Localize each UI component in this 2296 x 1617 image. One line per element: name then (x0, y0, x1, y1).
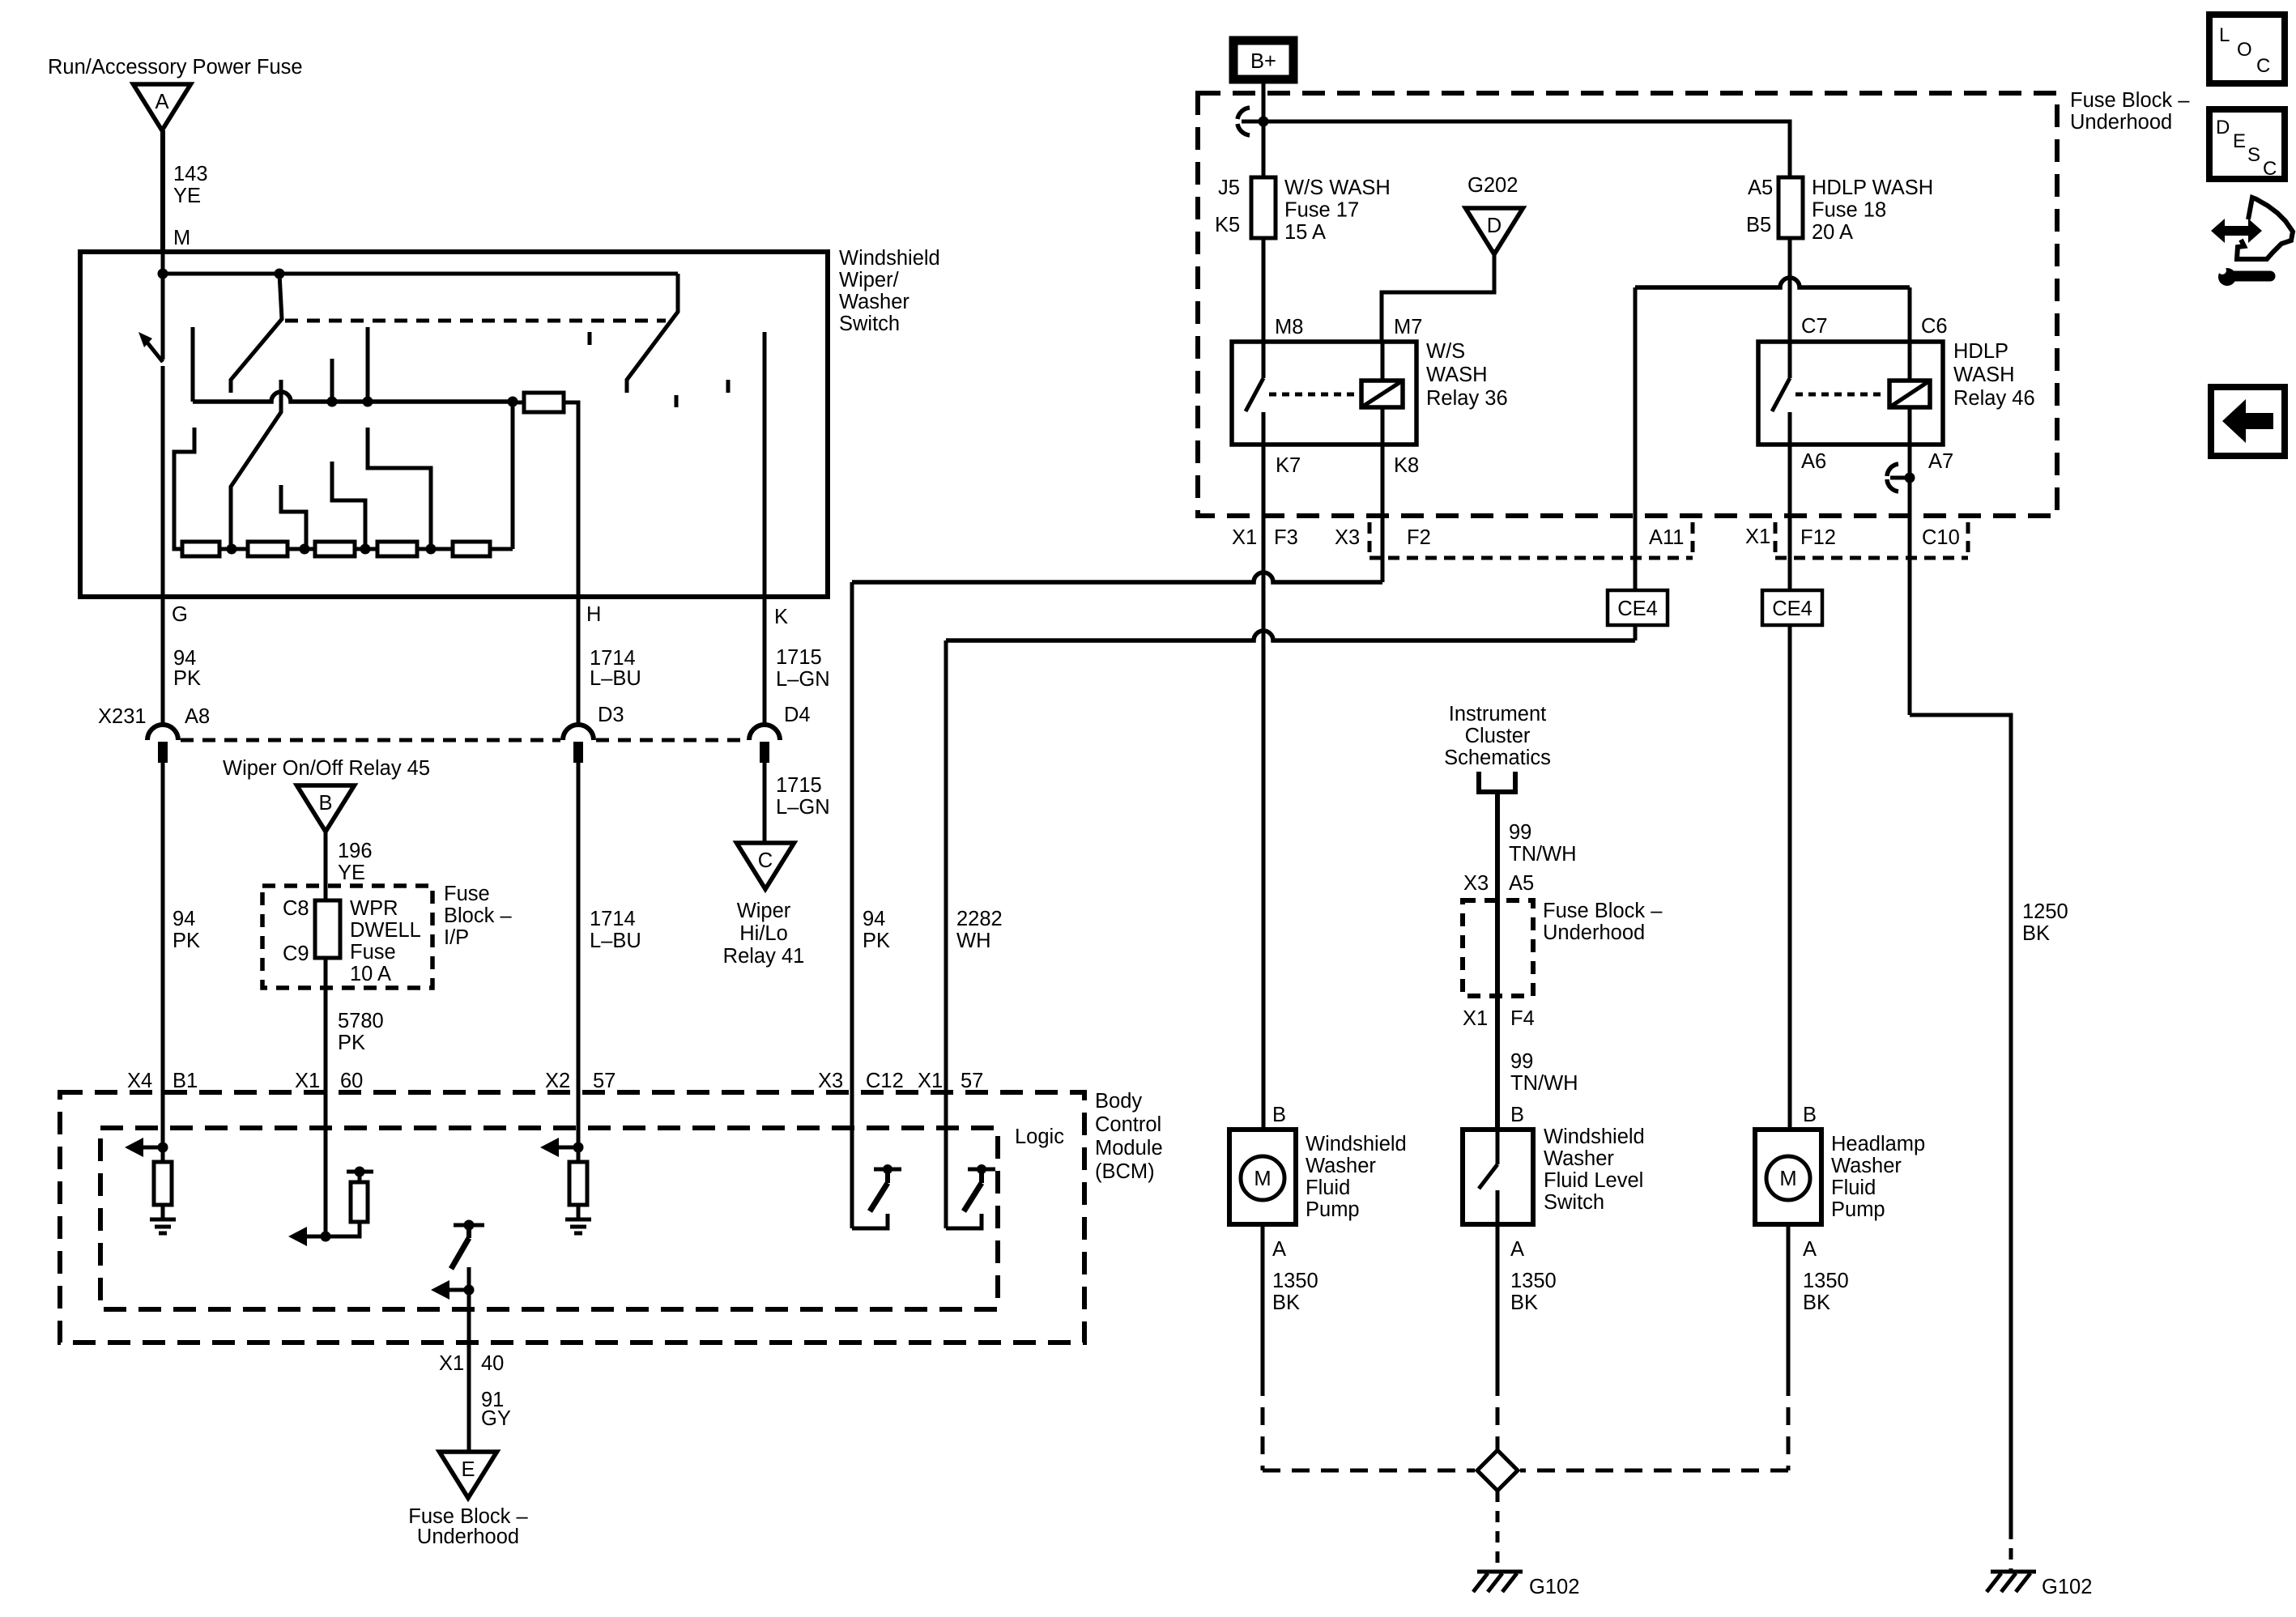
wire 60 to pullup resistor (326, 1222, 360, 1236)
svg-text:M: M (173, 227, 190, 249)
svg-text:TN/WH: TN/WH (1510, 1072, 1578, 1095)
mechanical link dashed (wiper lever) (285, 319, 666, 323)
svg-text:Washer: Washer (1544, 1147, 1614, 1170)
wire switch pin G (161, 366, 165, 723)
logic dashed box (100, 1128, 998, 1309)
in-line connector X231 A8 (147, 725, 178, 740)
junction ladder dot 2 (300, 544, 310, 555)
svg-text:Relay 46: Relay 46 (1953, 387, 2035, 410)
svg-text:A8: A8 (185, 705, 210, 728)
svg-text:E: E (461, 1458, 475, 1481)
svg-text:DWELL: DWELL (350, 919, 421, 942)
svg-text:Washer: Washer (1831, 1155, 1902, 1177)
fuse WPR DWELL 10A (315, 900, 340, 958)
fuse block underhood dashed box (1198, 93, 2057, 516)
svg-text:BK: BK (1803, 1291, 1830, 1314)
wire rail to delay resistor (513, 401, 524, 405)
svg-text:Fuse: Fuse (444, 883, 490, 905)
svg-text:94: 94 (863, 908, 885, 930)
svg-text:M7: M7 (1394, 316, 1422, 338)
svg-text:57: 57 (961, 1070, 983, 1092)
junction supply 60 (355, 1167, 365, 1177)
svg-text:A: A (1272, 1238, 1286, 1261)
ground G102 (right) (1991, 1570, 2036, 1574)
splice hook at B+ feed (1237, 108, 1250, 135)
wire pullup to supply (358, 1172, 362, 1182)
svg-text:Control: Control (1095, 1113, 1161, 1136)
BCM output 40: switch (454, 1223, 484, 1228)
svg-text:X2: X2 (545, 1070, 570, 1092)
battery B+ box (1233, 40, 1293, 79)
resistor ladder stub B (332, 462, 365, 549)
wire relay46 A7 down (1908, 445, 1912, 715)
wire fuse 17 to relay 36 M8 (1262, 238, 1266, 342)
svg-text:F12: F12 (1800, 526, 1836, 549)
svg-text:PK: PK (338, 1032, 365, 1054)
wire 1714 L-BU D3 to BCM 57 (577, 762, 581, 1095)
svg-text:Schematics: Schematics (1444, 747, 1551, 769)
wire ladder right riser (511, 402, 515, 549)
svg-text:Windshield: Windshield (839, 247, 940, 270)
svg-text:Washer: Washer (1306, 1155, 1376, 1177)
icon DESC box (2209, 109, 2285, 179)
svg-text:B1: B1 (173, 1070, 198, 1092)
connector boundary X3 dashed bar (1368, 522, 1372, 558)
svg-text:M: M (1254, 1168, 1271, 1190)
connector triangle B (Wiper On/Off Relay 45) (297, 785, 355, 832)
svg-text:Underhood: Underhood (1543, 921, 1645, 944)
svg-text:K5: K5 (1215, 214, 1240, 236)
svg-text:W/S WASH: W/S WASH (1284, 177, 1391, 199)
svg-text:Pump: Pump (1306, 1198, 1360, 1221)
junction 40 (464, 1285, 475, 1296)
relay 36 coil (1361, 381, 1403, 407)
svg-text:1715: 1715 (776, 646, 822, 669)
svg-text:C: C (2263, 158, 2277, 180)
svg-text:D: D (1487, 215, 1502, 237)
common rail of delay contacts (with hop) (193, 392, 513, 402)
level switch contact (1496, 1130, 1500, 1164)
icon wrench (2218, 268, 2236, 286)
junction rail dot 2 (363, 397, 373, 407)
fuse block underhood small dashed box (1463, 900, 1533, 996)
svg-text:L: L (2219, 24, 2230, 46)
icon hood open / double arrow (2211, 219, 2262, 243)
icon LOC box (2209, 15, 2285, 83)
svg-text:X1: X1 (439, 1352, 464, 1375)
wire 1715 L-GN D4 to relay41 triangle (763, 762, 767, 845)
BCM input 60: wire (324, 1095, 328, 1236)
svg-text:X4: X4 (127, 1070, 152, 1092)
svg-text:BK: BK (1510, 1291, 1538, 1314)
wire top rail of switch (163, 272, 678, 276)
svg-text:X1: X1 (295, 1070, 320, 1092)
body control module BCM dashed box (60, 1092, 1084, 1343)
BCM output 40: wire (467, 1267, 471, 1453)
relay 36 actuation dashed link (1269, 393, 1359, 397)
wire G202 to relay 36 M7 (1382, 249, 1494, 342)
wire K8 horizontal with hop (852, 572, 1382, 582)
wire relay36 K8 to BCM C12 (1381, 445, 1385, 582)
svg-text:K: K (774, 606, 788, 628)
svg-text:196: 196 (338, 840, 373, 862)
svg-text:C9: C9 (283, 943, 309, 965)
svg-text:I/P: I/P (444, 926, 469, 949)
svg-text:Fluid: Fluid (1831, 1177, 1876, 1199)
svg-text:Switch: Switch (839, 313, 900, 335)
wire delay resistor to pin H (564, 402, 578, 597)
svg-text:1350: 1350 (1510, 1270, 1557, 1292)
connector boundary X1 dashed bar (1774, 522, 1778, 558)
svg-text:HDLP WASH: HDLP WASH (1812, 177, 1933, 199)
svg-text:Relay 36: Relay 36 (1426, 387, 1508, 410)
wire resistor to ground (577, 1205, 581, 1219)
svg-text:Fuse Block –: Fuse Block – (1543, 900, 1663, 922)
svg-text:A: A (155, 91, 168, 113)
windshield washer fluid pump box (1229, 1130, 1296, 1224)
off-page bracket (instrument cluster) (1479, 772, 1515, 792)
resistor R-B of delay ladder (248, 542, 288, 556)
svg-text:57: 57 (593, 1070, 616, 1092)
fuse block I/P dashed box (262, 886, 432, 988)
svg-text:J5: J5 (1218, 177, 1240, 199)
svg-text:1350: 1350 (1272, 1270, 1318, 1292)
svg-text:B: B (1803, 1104, 1817, 1126)
connector dashed line D3-D4 (596, 738, 747, 743)
svg-text:Fuse Block –: Fuse Block – (408, 1505, 528, 1528)
svg-text:Wiper/: Wiper/ (839, 269, 900, 291)
svg-text:BK: BK (2022, 922, 2050, 945)
svg-text:Relay 41: Relay 41 (723, 945, 805, 968)
svg-text:B5: B5 (1746, 214, 1771, 236)
relay 36 W/S WASH box (1232, 342, 1416, 445)
svg-text:L–BU: L–BU (590, 930, 641, 952)
svg-text:Cluster: Cluster (1465, 725, 1531, 747)
svg-text:Run/Accessory Power Fuse: Run/Accessory Power Fuse (48, 56, 303, 79)
mech link tick 3 (726, 380, 731, 393)
junction rail dot 1 (327, 397, 338, 407)
svg-text:L–GN: L–GN (776, 668, 830, 691)
wire B+ to fuse 17 (1262, 79, 1266, 177)
svg-text:C: C (2256, 55, 2270, 77)
wire headlamp pump A to splice (1787, 1224, 1791, 1378)
wire 143 YE from triangle A to switch pin M (160, 130, 165, 254)
junction rail dot 3 (508, 397, 518, 407)
relay 46 HDLP WASH box (1758, 342, 1943, 445)
resistor R-D of delay ladder (377, 542, 417, 556)
connector dashed line X231 row (181, 738, 560, 743)
svg-text:C6: C6 (1921, 315, 1948, 338)
headlamp pump motor M (1766, 1156, 1810, 1200)
svg-text:Hi/Lo: Hi/Lo (739, 922, 788, 945)
resistor B1 pulldown (154, 1162, 172, 1205)
svg-text:D4: D4 (784, 704, 811, 726)
wire M bus inside switch (161, 252, 165, 360)
switch mode blade (wiper lever) (231, 274, 282, 393)
resistor R-C of delay ladder (315, 542, 355, 556)
svg-text:C7: C7 (1801, 315, 1828, 338)
BCM input 57: arrow to logic (555, 1146, 578, 1150)
svg-text:L–GN: L–GN (776, 796, 830, 819)
svg-text:C8: C8 (283, 897, 309, 920)
wire 99 TN/WH cluster to fuse block (1495, 792, 1500, 1130)
svg-text:A: A (1803, 1238, 1817, 1261)
windshield washer fluid level switch box (1463, 1130, 1533, 1224)
resistor ladder stub C (368, 428, 431, 549)
svg-text:Fuse 18: Fuse 18 (1812, 199, 1886, 222)
svg-text:WASH: WASH (1426, 364, 1488, 386)
switch blade (on/off) with arrow tip (147, 342, 163, 362)
svg-text:PK: PK (173, 667, 201, 690)
svg-text:1714: 1714 (590, 647, 636, 670)
fuse 17 W/S WASH 15A (1251, 177, 1276, 238)
svg-text:Switch: Switch (1544, 1191, 1604, 1214)
ground BCM B1 (150, 1218, 176, 1222)
svg-text:D3: D3 (598, 704, 624, 726)
svg-text:Underhood: Underhood (2070, 111, 2172, 134)
relay 36 coil wires (1381, 342, 1385, 381)
svg-text:O: O (2237, 39, 2252, 61)
svg-text:PK: PK (173, 930, 200, 952)
svg-text:B: B (318, 792, 332, 815)
svg-text:60: 60 (340, 1070, 363, 1092)
splice hook on A7 wire (1905, 473, 1915, 483)
svg-text:X3: X3 (818, 1070, 843, 1092)
svg-text:2282: 2282 (956, 908, 1003, 930)
contact stub delay pos 2 (366, 327, 370, 402)
wire relay36 K7 to washer pump (228 OG) (1262, 445, 1266, 1130)
wire CE4/A11 horizontal with hop (946, 631, 1635, 640)
wire 94 PK pin G to X231 (161, 597, 165, 725)
svg-text:G102: G102 (2042, 1576, 2092, 1598)
wire 94 PK down to BCM C12 (850, 582, 854, 1095)
icon back arrow box (2211, 387, 2285, 456)
connector CE4 (A11 wire) (1608, 590, 1668, 625)
ground G102 (center) (1477, 1570, 1523, 1574)
relay 46 coil (1889, 381, 1930, 407)
wire resistor to ground (161, 1205, 165, 1219)
svg-text:A6: A6 (1801, 450, 1826, 473)
junction ladder dot 1 (227, 544, 237, 555)
svg-text:X1: X1 (1463, 1007, 1488, 1030)
svg-text:CE4: CE4 (1617, 598, 1658, 620)
svg-text:BK: BK (1272, 1291, 1300, 1314)
svg-text:C10: C10 (1922, 526, 1960, 549)
wire resistor ladder links (219, 547, 248, 551)
svg-text:Wiper: Wiper (737, 900, 791, 922)
in-line connector D4 (749, 725, 780, 740)
svg-text:D: D (2216, 117, 2230, 138)
supply bar 60 (347, 1170, 373, 1174)
in-line connector D3 (563, 725, 594, 740)
svg-text:Pump: Pump (1831, 1198, 1885, 1221)
wire coil feed to relay 46 C6 (1635, 278, 1910, 287)
wire 94 PK X231 to BCM B1 (161, 762, 165, 1095)
washer pump motor M (1241, 1156, 1284, 1200)
svg-text:Fuse: Fuse (350, 941, 396, 964)
svg-text:Headlamp: Headlamp (1831, 1133, 1925, 1155)
low-speed contact hook (174, 428, 194, 549)
mech link tick 1 (588, 332, 592, 345)
wire A11 branch down (1634, 287, 1638, 640)
BCM input B1: wire (161, 1095, 165, 1162)
wire B+ bus to fuse 18 (1242, 121, 1790, 177)
junction 60 (321, 1232, 331, 1242)
connector triangle A (Run/Accessory Power Fuse) (134, 84, 191, 130)
svg-text:Body: Body (1095, 1090, 1142, 1113)
connector CE4 (F12 wire) (1762, 590, 1822, 625)
BCM input B1: arrow to logic (139, 1146, 163, 1150)
svg-text:1714: 1714 (590, 908, 636, 930)
wire wash contact pin K (763, 332, 767, 597)
svg-text:S: S (2247, 144, 2260, 166)
svg-text:94: 94 (173, 647, 196, 670)
svg-text:Instrument: Instrument (1449, 703, 1546, 726)
svg-text:Module: Module (1095, 1137, 1163, 1160)
resistor ladder stub A (281, 485, 306, 549)
relay 46 coil wires (1908, 342, 1912, 381)
svg-text:10 A: 10 A (350, 963, 391, 985)
svg-text:TN/WH: TN/WH (1509, 843, 1577, 866)
svg-text:Logic: Logic (1015, 1126, 1064, 1148)
connector triangle D (G202) (1466, 208, 1523, 254)
svg-text:YE: YE (173, 185, 201, 207)
svg-text:1715: 1715 (776, 774, 822, 797)
resistor R-A of delay ladder (182, 542, 219, 556)
svg-text:A5: A5 (1509, 872, 1534, 895)
svg-text:1350: 1350 (1803, 1270, 1849, 1292)
svg-text:G: G (172, 603, 188, 626)
svg-text:K8: K8 (1394, 454, 1419, 477)
svg-text:Fuse Block –: Fuse Block – (2070, 89, 2190, 112)
svg-text:G202: G202 (1467, 174, 1518, 197)
junction B1 (158, 1143, 168, 1153)
junction M bus (158, 269, 168, 279)
svg-text:GY: GY (481, 1407, 511, 1430)
connector triangle E (to fuse block underhood) (440, 1452, 497, 1498)
svg-text:B+: B+ (1250, 50, 1276, 73)
svg-text:E: E (2233, 130, 2246, 152)
wire 1715 L-GN pin K to D4 (763, 597, 767, 725)
svg-text:Fluid: Fluid (1306, 1177, 1350, 1199)
svg-text:Windshield: Windshield (1544, 1126, 1645, 1148)
resistor 57 pulldown (569, 1162, 587, 1205)
junction ladder dot 3 (360, 544, 371, 555)
svg-text:HDLP: HDLP (1953, 340, 2008, 363)
svg-text:5780: 5780 (338, 1010, 384, 1032)
resistor delay feed (524, 393, 564, 412)
wire level switch A to splice (1496, 1224, 1500, 1378)
svg-text:WASH: WASH (1953, 364, 2015, 386)
svg-text:F4: F4 (1510, 1007, 1535, 1030)
svg-text:W/S: W/S (1426, 340, 1465, 363)
svg-text:143: 143 (173, 163, 208, 185)
svg-text:B: B (1510, 1104, 1524, 1126)
svg-text:A: A (1510, 1238, 1524, 1261)
svg-text:Wiper On/Off Relay 45: Wiper On/Off Relay 45 (223, 757, 430, 780)
relay 46 switch contact (1788, 342, 1792, 378)
svg-text:H: H (586, 603, 601, 626)
svg-text:Fluid Level: Fluid Level (1544, 1169, 1643, 1192)
svg-text:20 A: 20 A (1812, 221, 1853, 244)
svg-text:YE: YE (338, 862, 365, 884)
svg-text:C: C (758, 849, 773, 872)
wire 1714 L-BU pin H to D3 (577, 597, 581, 725)
wire 2282 WH down to BCM 57 (944, 640, 948, 1095)
svg-text:X1: X1 (918, 1070, 943, 1092)
splice diamond S-point (1477, 1450, 1518, 1491)
svg-text:L–BU: L–BU (590, 667, 641, 690)
svg-text:G102: G102 (1529, 1576, 1579, 1598)
svg-text:Windshield: Windshield (1306, 1133, 1407, 1155)
svg-text:A5: A5 (1748, 177, 1773, 199)
svg-text:X231: X231 (98, 705, 147, 728)
BCM output driver C12 (wiper relay control) (850, 1095, 854, 1228)
relay 46 actuation dashed link (1795, 393, 1885, 397)
svg-text:A7: A7 (1928, 450, 1953, 473)
wire 196 YE triangle B to fuse (324, 832, 328, 900)
wash switch blade (627, 274, 678, 393)
svg-text:C12: C12 (866, 1070, 904, 1092)
junction ladder dot 4 (426, 544, 437, 555)
svg-text:WPR: WPR (350, 897, 398, 920)
svg-text:F2: F2 (1407, 526, 1431, 549)
svg-text:Washer: Washer (839, 291, 909, 313)
svg-text:M8: M8 (1275, 316, 1303, 338)
wire 5780 PK fuse to BCM 60 (324, 958, 328, 1095)
wire 1250 BK to ground (1910, 715, 2011, 1528)
svg-text:Fuse 17: Fuse 17 (1284, 199, 1359, 222)
svg-text:B: B (1272, 1104, 1286, 1126)
svg-text:A11: A11 (1649, 526, 1684, 549)
ground BCM 57 (565, 1218, 591, 1222)
resistor R-E of delay ladder (453, 542, 490, 556)
contact stub delay pos 1 (330, 359, 334, 402)
svg-text:15 A: 15 A (1284, 221, 1326, 244)
svg-text:1250: 1250 (2022, 900, 2068, 923)
svg-text:94: 94 (173, 908, 195, 930)
connector triangle C (Wiper Hi/Lo Relay 41) (737, 843, 794, 889)
wire washer pump A to splice (1261, 1224, 1265, 1378)
wire splice to ground (1496, 1491, 1500, 1572)
headlamp washer fluid pump box (1755, 1130, 1821, 1224)
svg-text:Block –: Block – (444, 904, 512, 927)
svg-text:Underhood: Underhood (417, 1526, 519, 1548)
svg-text:F3: F3 (1274, 526, 1298, 549)
wire relay46 A6 to headlamp pump (1197 PU) (1788, 445, 1792, 1130)
junction top rail / mode blade (275, 269, 285, 279)
svg-text:X3: X3 (1335, 526, 1360, 549)
relay 36 switch contact (1262, 342, 1266, 378)
delay wiper blade (231, 380, 281, 549)
svg-text:M: M (1779, 1168, 1796, 1190)
windshield wiper/washer switch box (80, 252, 828, 597)
svg-text:WH: WH (956, 930, 990, 952)
junction 57 (573, 1143, 584, 1153)
svg-text:K7: K7 (1276, 454, 1301, 477)
mech link tick 2 (675, 395, 679, 407)
BCM input 57(X2): wire (577, 1095, 581, 1162)
junction B+ bus (1259, 117, 1269, 127)
BCM output driver 57 (wash relay control) (944, 1095, 948, 1228)
contact stub OFF (191, 327, 195, 402)
BCM input 60: arrow to logic (303, 1235, 326, 1239)
svg-text:PK: PK (863, 930, 890, 952)
svg-text:(BCM): (BCM) (1095, 1160, 1155, 1183)
svg-text:99: 99 (1509, 821, 1531, 844)
svg-text:CE4: CE4 (1772, 598, 1813, 620)
svg-text:40: 40 (481, 1352, 504, 1375)
